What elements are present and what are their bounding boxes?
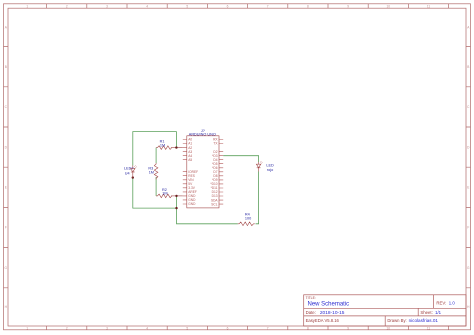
- svg-text:1M: 1M: [160, 143, 165, 147]
- svg-text:5: 5: [186, 4, 188, 8]
- svg-text:A: A: [5, 26, 8, 30]
- svg-text:10: 10: [387, 326, 391, 330]
- svg-text:rojo: rojo: [267, 168, 273, 172]
- svg-text:2018-10-15: 2018-10-15: [320, 310, 345, 316]
- svg-text:5: 5: [186, 326, 188, 330]
- svg-text:3: 3: [106, 4, 108, 8]
- svg-text:TX: TX: [213, 142, 218, 146]
- wire R1 left vertical chain: [155, 148, 157, 163]
- svg-text:G: G: [5, 266, 8, 270]
- svg-text:Date:: Date:: [306, 310, 316, 315]
- svg-text:1/1: 1/1: [435, 310, 442, 315]
- svg-text:LED?: LED?: [124, 166, 134, 170]
- svg-text:11: 11: [427, 4, 431, 8]
- svg-text:G: G: [467, 266, 470, 270]
- svg-text:nicolasfrias.01: nicolasfrias.01: [409, 318, 439, 323]
- svg-text:10: 10: [387, 4, 391, 8]
- svg-text:A: A: [467, 26, 470, 30]
- svg-text:U4: U4: [125, 172, 130, 176]
- svg-text:REV:: REV:: [436, 301, 446, 306]
- svg-text:C: C: [5, 105, 8, 109]
- title block: [304, 295, 466, 326]
- svg-text:8: 8: [307, 4, 309, 8]
- pin names left: [188, 138, 198, 207]
- wire net A2 top loop: [133, 132, 177, 166]
- svg-text:2: 2: [66, 4, 68, 8]
- svg-text:7: 7: [267, 326, 269, 330]
- svg-text:C: C: [467, 105, 470, 109]
- wire R2 right to pin GND: [171, 195, 183, 197]
- svg-text:1M: 1M: [162, 192, 167, 196]
- svg-text:6: 6: [227, 326, 229, 330]
- svg-text:Drawn By:: Drawn By:: [387, 318, 406, 323]
- svg-text:1.0: 1.0: [449, 301, 456, 306]
- svg-text:ARDUINO UNO: ARDUINO UNO: [189, 132, 216, 136]
- svg-text:SCL: SCL: [211, 202, 217, 206]
- pin names right: [210, 138, 218, 207]
- svg-text:D: D: [467, 145, 470, 149]
- svg-text:B: B: [467, 65, 469, 69]
- svg-text:E: E: [467, 186, 469, 190]
- junction node below LED1: [132, 176, 134, 178]
- svg-text:1: 1: [26, 4, 28, 8]
- wire R3 bottom to R2 left: [155, 177, 157, 196]
- junction node at GND pin: [175, 195, 177, 197]
- svg-text:7: 7: [267, 4, 269, 8]
- junction node at bottom corner: [175, 207, 177, 209]
- svg-text:E: E: [5, 186, 7, 190]
- svg-text:F: F: [467, 226, 469, 230]
- resistor R4: [238, 222, 255, 226]
- svg-text:D: D: [5, 145, 8, 149]
- svg-text:4: 4: [146, 4, 148, 8]
- svg-text:1M: 1M: [149, 170, 154, 174]
- svg-text:TITLE:: TITLE:: [306, 296, 316, 300]
- pins right leads: [219, 140, 223, 205]
- wire D3 pin to LED2 top: [223, 156, 258, 162]
- svg-text:H: H: [5, 305, 8, 309]
- LED LED2: [256, 161, 262, 171]
- svg-text:6: 6: [227, 4, 229, 8]
- svg-text:8: 8: [307, 326, 309, 330]
- svg-text:GND: GND: [188, 202, 196, 206]
- junction node at R1/A2: [175, 146, 177, 148]
- IC J? ARDUINO UNO: [187, 136, 219, 208]
- pins left leads: [183, 140, 187, 205]
- svg-text:4: 4: [146, 326, 148, 330]
- wire GND node to R4: [177, 208, 238, 224]
- svg-text:EasyEDA V5.8.16: EasyEDA V5.8.16: [306, 318, 340, 323]
- svg-text:11: 11: [427, 326, 431, 330]
- svg-text:9: 9: [347, 4, 349, 8]
- svg-text:100: 100: [245, 216, 251, 220]
- svg-text:H: H: [467, 305, 470, 309]
- resistor R3: [154, 163, 158, 179]
- svg-text:New Schematic: New Schematic: [308, 302, 350, 308]
- resistor R2: [156, 194, 172, 198]
- svg-text:Sheet:: Sheet:: [420, 310, 432, 315]
- svg-text:2: 2: [66, 326, 68, 330]
- svg-text:A5: A5: [188, 158, 192, 162]
- svg-text:LED: LED: [266, 163, 274, 167]
- resistor R1: [156, 146, 172, 150]
- svg-text:3: 3: [106, 326, 108, 330]
- wire R1 right to pin A2: [171, 147, 183, 149]
- svg-text:F: F: [5, 226, 7, 230]
- LED LED1: [131, 165, 137, 177]
- svg-text:1: 1: [26, 326, 28, 330]
- wire LED1 bottom to GND node: [133, 178, 177, 209]
- wire R4 right to LED2 bottom: [256, 172, 259, 224]
- svg-text:9: 9: [347, 326, 349, 330]
- svg-text:B: B: [5, 65, 7, 69]
